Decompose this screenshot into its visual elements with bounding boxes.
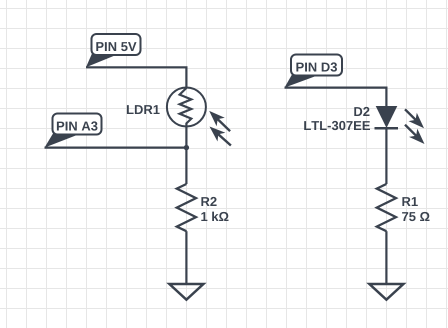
net flag PIN 5V: [86, 34, 141, 67]
wire PIN D3 to D2 anode: [285, 88, 387, 107]
label D2 LTL-307EE: [304, 107, 370, 130]
wire D2 cathode to R1 top: [385, 128, 387, 184]
LED D2: [375, 106, 399, 128]
ground (right): [369, 284, 403, 300]
wire PIN 5V to LDR1 top: [86, 67, 186, 88]
label LDR1: [127, 105, 160, 114]
wire LDR1 bottom to R2 top: [185, 127, 187, 185]
label R2 value 1 kΩ: [201, 197, 228, 221]
ground (left): [169, 284, 203, 300]
wire R2 to ground: [185, 231, 187, 284]
wire PIN A3 to junction: [45, 147, 187, 149]
junction node A3 / LDR1 / R2: [184, 145, 189, 150]
resistor R2: [177, 184, 196, 231]
LDR1 light arrows: [209, 111, 231, 146]
label R1 value 75 Ω: [402, 197, 429, 221]
resistor R1: [377, 184, 396, 231]
wire R1 to ground: [385, 231, 387, 284]
net flag PIN D3: [285, 55, 343, 88]
photoresistor LDR1: [167, 88, 206, 127]
D2 light arrows: [405, 109, 425, 144]
net flag PIN A3: [45, 114, 102, 148]
